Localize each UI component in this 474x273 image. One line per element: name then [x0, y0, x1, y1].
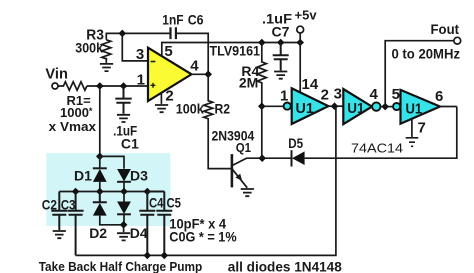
resistor R3 [102, 40, 111, 59]
wire pin2 ground stub [160, 94, 162, 104]
node U1a output junction [331, 102, 339, 110]
capacitor C7 [273, 43, 289, 71]
ground below R3 [100, 64, 113, 71]
wire +5v stub [299, 33, 301, 43]
svg-text:3: 3 [334, 85, 342, 102]
op-amp minus sign [151, 61, 156, 63]
ground pin7 [406, 138, 419, 147]
svg-text:2: 2 [165, 88, 173, 105]
node D2-D4 junction [120, 221, 128, 229]
wire charge pump bottom rail [76, 106, 336, 255]
wire R1 node down to charge pump [99, 86, 101, 156]
D3 lead [123, 182, 125, 192]
D5 body [292, 151, 305, 165]
inverter U1c input bubble [393, 103, 400, 110]
D4 lead [123, 214, 125, 225]
svg-text:C7: C7 [272, 23, 290, 39]
resistor R2 [204, 74, 232, 168]
node Q1 collector junction [258, 154, 266, 162]
capacitor C6 [171, 27, 176, 39]
inverter U1c [401, 90, 441, 124]
node D1-D2 junction [96, 188, 104, 196]
wire R3 top / C6 feedback line [106, 33, 208, 74]
svg-text:1nF: 1nF [162, 11, 184, 27]
capacitor C5 [147, 192, 172, 256]
svg-text:C3: C3 [61, 196, 76, 212]
svg-text:D3: D3 [130, 168, 148, 184]
svg-text:14: 14 [302, 76, 319, 93]
svg-text:Fout: Fout [431, 21, 460, 37]
node D3-D4 junction [120, 188, 128, 196]
node C7 junction [277, 39, 285, 47]
svg-text:C0G * = 1%: C0G * = 1% [169, 228, 237, 244]
wire D1 top stub [99, 156, 101, 168]
svg-text:D1: D1 [74, 168, 92, 184]
node Fout tap junction [381, 103, 389, 111]
wire pin5 to +5v rail [162, 43, 300, 57]
wire D5 to inverter3 output [305, 107, 457, 159]
svg-text:5: 5 [392, 86, 400, 103]
svg-text:2: 2 [321, 87, 329, 104]
wire opamp output [192, 73, 209, 75]
svg-text:Take Back Half Charge Pump: Take Back Half Charge Pump [39, 260, 203, 273]
diode D3 [117, 169, 131, 182]
ground below pin2 [155, 105, 168, 112]
svg-text:C6: C6 [188, 11, 204, 27]
node Vin/R1 junction [96, 82, 104, 90]
wire pin3 input [122, 33, 148, 61]
svg-text:D2: D2 [89, 225, 107, 241]
svg-text:0 to 20MHz: 0 to 20MHz [392, 46, 461, 61]
node R4 / U1 pin1 junction [258, 103, 266, 111]
svg-text:300k: 300k [75, 40, 103, 56]
node C4 bottom junction [144, 252, 152, 260]
node C3 junction [72, 188, 80, 196]
ground below C7 [274, 72, 287, 79]
Fout terminal [454, 37, 461, 44]
ground below Q1 emitter [241, 189, 254, 196]
svg-text:5: 5 [164, 43, 172, 60]
ground below D2-D4 [117, 233, 130, 240]
svg-text:C4: C4 [149, 194, 164, 210]
svg-text:74AC14: 74AC14 [351, 141, 403, 156]
svg-text:2M: 2M [239, 75, 258, 91]
svg-text:1: 1 [280, 87, 288, 104]
node C5 bottom junction [161, 252, 169, 260]
wire pin7 ground stub [411, 119, 413, 137]
charge pump highlight [46, 153, 170, 226]
node +5v junction [296, 39, 304, 47]
svg-text:R2: R2 [215, 101, 231, 117]
wire U1c output [440, 106, 457, 108]
ground below C2 [53, 231, 66, 238]
resistor R4 [257, 43, 266, 107]
svg-text:x Vmax: x Vmax [49, 119, 97, 134]
capacitor C3 [68, 192, 84, 256]
node feedback junction [119, 30, 127, 38]
inverter U1b [343, 89, 372, 124]
wire pin14 supply [299, 43, 301, 93]
wire Fout [385, 41, 454, 107]
D4 bar [117, 213, 131, 215]
wire node down to collector [261, 106, 263, 158]
wire D2-D4 ground stub [123, 225, 125, 232]
svg-text:7: 7 [418, 120, 426, 137]
svg-text:D4: D4 [130, 225, 148, 241]
diode D5 [291, 150, 293, 166]
diode D1 [93, 167, 107, 169]
U1b output bubble [372, 102, 380, 110]
svg-text:+5v: +5v [295, 7, 318, 22]
+5v terminal [297, 26, 304, 33]
svg-text:100k: 100k [176, 101, 204, 117]
op-amp U2 TLV9161 [148, 48, 192, 101]
node opamp output [204, 71, 212, 79]
D2 lead [100, 216, 124, 225]
inverter U1a input bubble [284, 103, 291, 110]
transistor Q1 2N3904 [232, 154, 263, 188]
D1 lead [99, 182, 101, 192]
svg-text:TLV9161: TLV9161 [210, 43, 261, 59]
wire Vin node to opamp + input [87, 85, 148, 87]
node C4 junction [144, 188, 152, 196]
ground below C1 [117, 115, 130, 122]
capacitor C1 [115, 86, 131, 114]
node C1 junction [120, 82, 128, 90]
D3 bar [117, 181, 131, 183]
svg-text:3: 3 [136, 46, 144, 63]
svg-text:C5: C5 [167, 194, 182, 210]
capacitor C4 [139, 192, 155, 256]
op-amp plus sign [151, 83, 156, 88]
inverter U1a [292, 88, 329, 124]
svg-text:U1: U1 [296, 100, 314, 117]
wire R3 ground stub [105, 58, 107, 63]
node charge pump top junction [96, 153, 104, 161]
diode D4 [123, 192, 125, 202]
Q1 emitter arrow [235, 174, 242, 181]
svg-text:all diodes 1N4148: all diodes 1N4148 [228, 259, 342, 273]
wire collector node to D5 [262, 157, 291, 159]
svg-text:U1: U1 [406, 100, 423, 117]
svg-text:1: 1 [137, 71, 145, 88]
wire U1b output [381, 106, 393, 108]
svg-text:C2: C2 [42, 196, 57, 212]
svg-text:6: 6 [435, 88, 443, 105]
svg-text:4: 4 [370, 86, 379, 103]
svg-text:U1: U1 [347, 100, 364, 117]
Vin terminal [52, 83, 58, 89]
D2 body [93, 203, 107, 216]
D4 body [117, 202, 131, 215]
D1 body [93, 169, 107, 182]
svg-text:1000*: 1000* [60, 105, 93, 120]
svg-text:Vin: Vin [45, 66, 68, 83]
wire node to U1 input [262, 105, 283, 107]
svg-text:Q1: Q1 [236, 140, 251, 155]
wire U1a output [328, 105, 343, 107]
svg-text:4: 4 [190, 58, 199, 75]
svg-text:C1: C1 [121, 136, 139, 152]
capacitor C2 [51, 192, 67, 231]
diode D2 [93, 192, 107, 203]
resistor R1 [58, 82, 87, 90]
wire charge pump middle row [59, 191, 164, 193]
node R4 top junction [258, 39, 266, 47]
svg-text:D5: D5 [288, 135, 303, 151]
wire top junction to D3 [100, 156, 124, 168]
